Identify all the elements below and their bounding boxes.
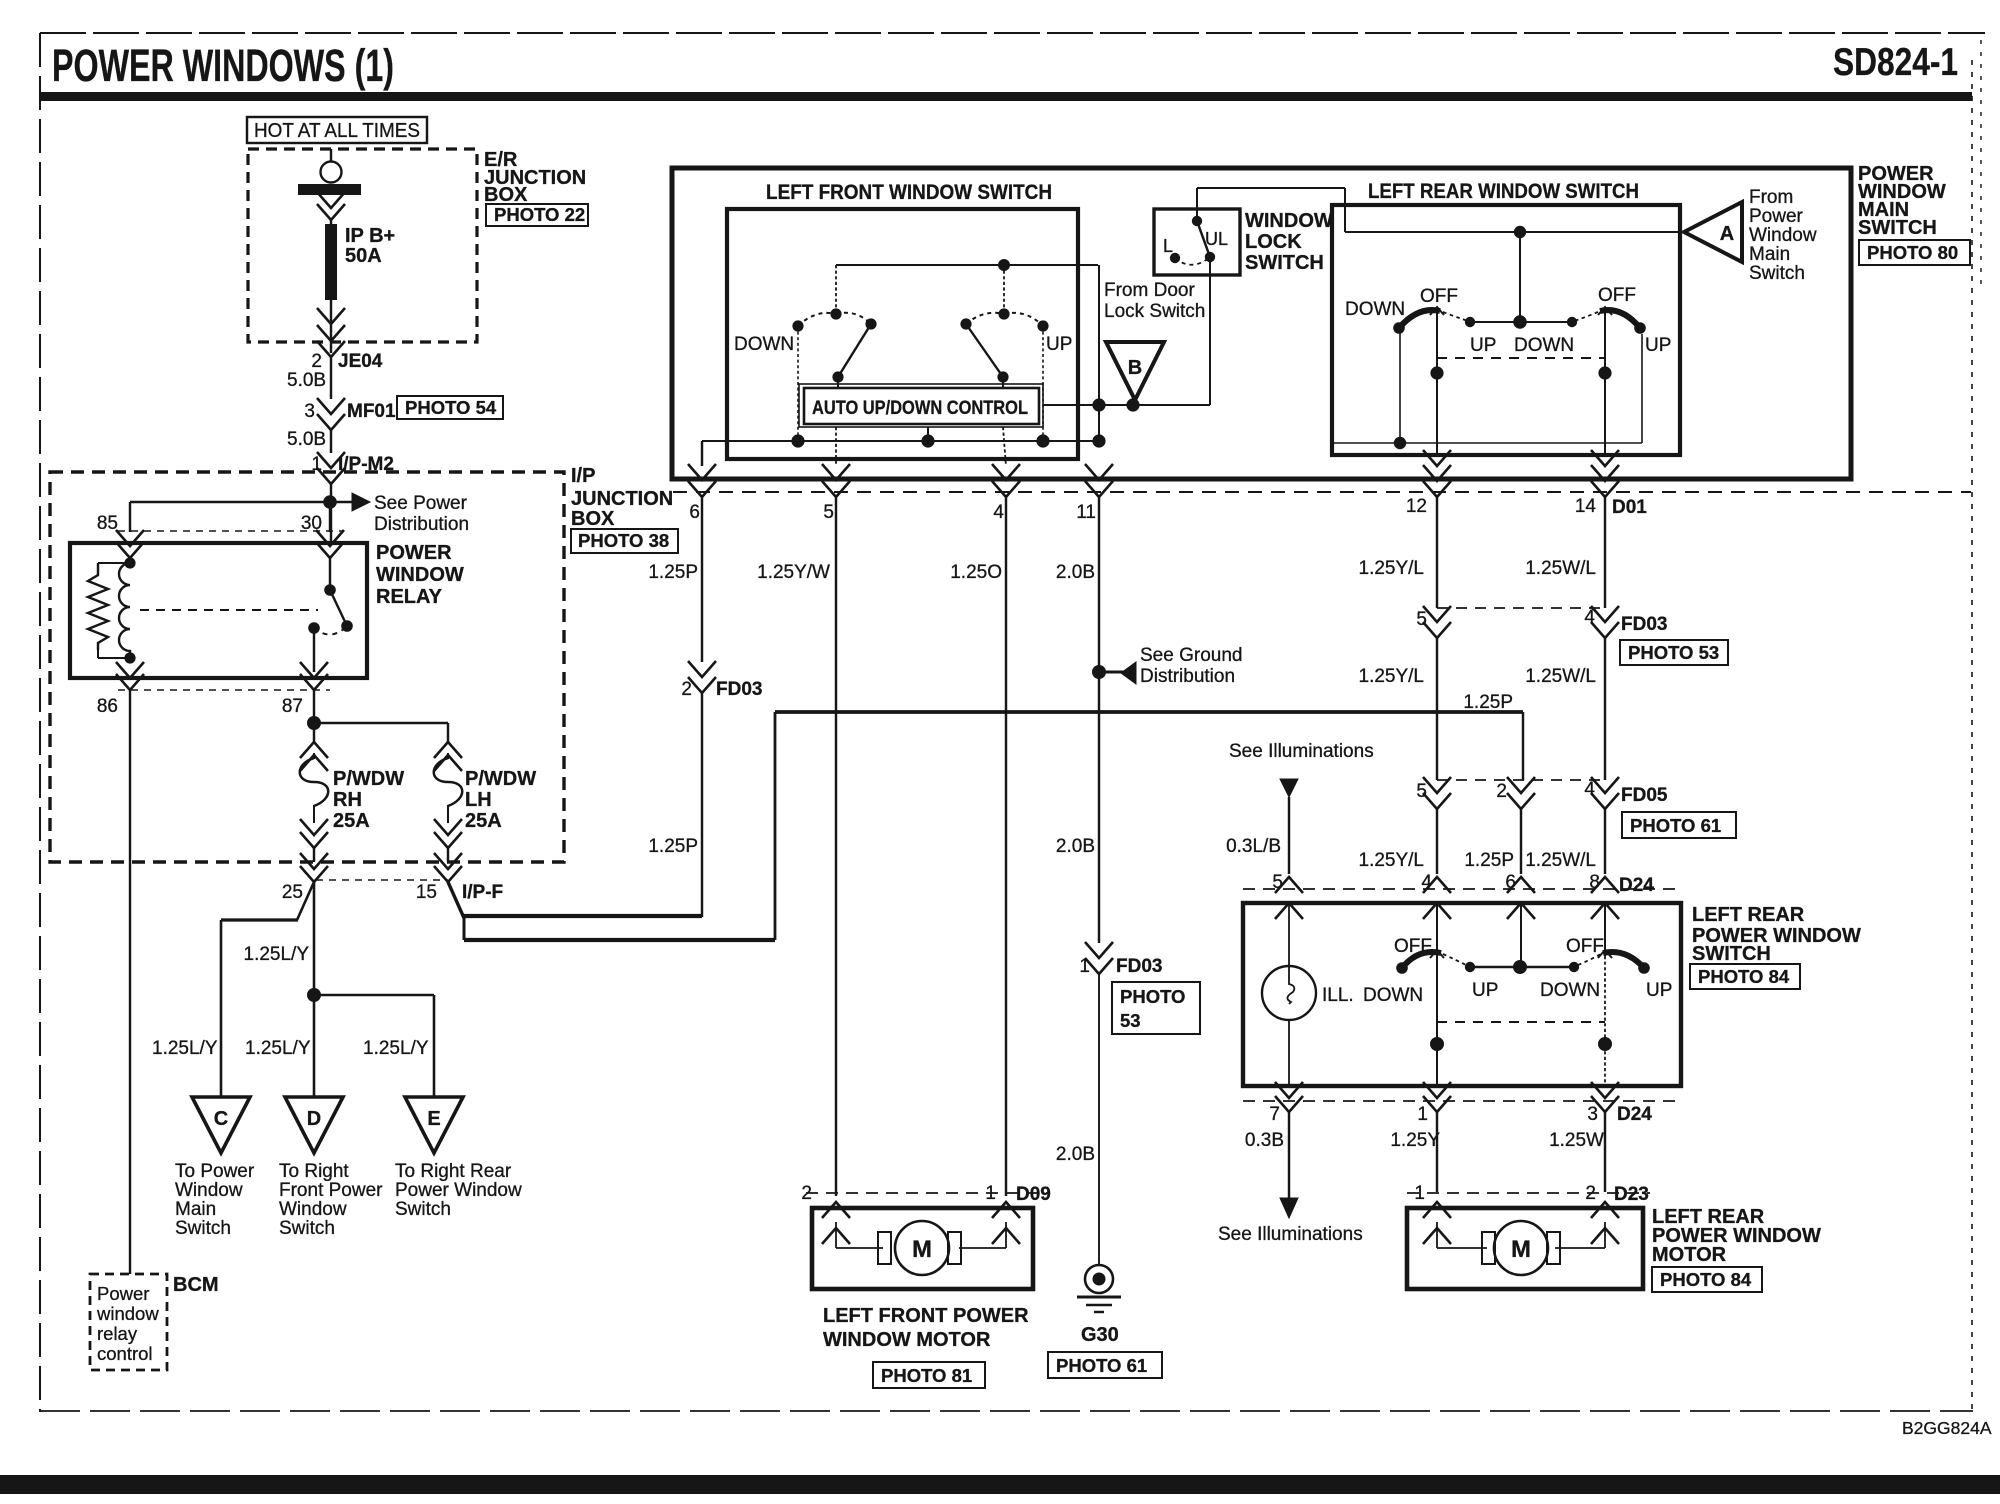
FD05 connector bbox=[1437, 779, 1605, 781]
bottom black bar bbox=[0, 1475, 2000, 1494]
wire fuse to JE04 bbox=[330, 300, 332, 353]
svg-text:UP: UP bbox=[1646, 980, 1672, 1001]
PHOTO 53 box (ground) bbox=[1112, 982, 1200, 1034]
svg-text:2: 2 bbox=[1585, 1183, 1596, 1204]
svg-text:JUNCTION: JUNCTION bbox=[571, 488, 673, 510]
svg-text:PHOTO: PHOTO bbox=[1120, 986, 1185, 1007]
battery feed stub bbox=[330, 149, 332, 162]
pin 11 vertical bbox=[1098, 265, 1100, 441]
svg-text:B: B bbox=[1128, 357, 1142, 379]
svg-text:IP B+: IP B+ bbox=[345, 225, 395, 247]
lock switch feed wire to rear box bbox=[1196, 188, 1198, 221]
wire to relay pin 85 bbox=[130, 501, 330, 503]
PHOTO 80 box bbox=[1859, 240, 1970, 265]
svg-text:Power Window: Power Window bbox=[395, 1180, 522, 1201]
D01 exit chevrons pin 14 bbox=[1591, 450, 1619, 466]
svg-text:I/P: I/P bbox=[571, 465, 595, 487]
wire column 14 (1.25W/L) bbox=[1604, 497, 1606, 608]
D01 exit chevrons pin 6 bbox=[688, 464, 716, 480]
relay connector dashed line bbox=[118, 530, 342, 532]
svg-text:PHOTO 61: PHOTO 61 bbox=[1630, 815, 1721, 836]
D01 exit chevrons pin 5 bbox=[822, 464, 850, 480]
wire column 6 (1.25P) bbox=[701, 497, 703, 662]
svg-text:PHOTO 80: PHOTO 80 bbox=[1867, 242, 1958, 263]
svg-text:OFF: OFF bbox=[1566, 936, 1604, 957]
PHOTO 81 box (front motor) bbox=[873, 1362, 985, 1388]
svg-text:DOWN: DOWN bbox=[1363, 985, 1423, 1006]
motor M circle bbox=[1494, 1221, 1548, 1275]
battery circle bbox=[321, 162, 342, 183]
svg-text:1.25P: 1.25P bbox=[648, 836, 698, 857]
svg-text:To Right: To Right bbox=[279, 1161, 349, 1182]
label HOT AT ALL TIMES bbox=[247, 117, 427, 143]
svg-text:Main: Main bbox=[1749, 244, 1790, 265]
pin5 wire inside box bbox=[835, 427, 837, 466]
D24 lower connector bbox=[1243, 1100, 1681, 1102]
svg-text:PHOTO 84: PHOTO 84 bbox=[1660, 1269, 1752, 1290]
I/P-F connector dashed bbox=[316, 879, 448, 881]
svg-text:1.25L/Y: 1.25L/Y bbox=[245, 1038, 311, 1059]
svg-text:M: M bbox=[912, 1236, 932, 1263]
D24 connector row (top of rear power switch) bbox=[1243, 888, 1681, 890]
wire column 4 (1.25O) bbox=[1005, 497, 1007, 1196]
svg-text:6: 6 bbox=[689, 502, 700, 523]
LEFT REAR POWER WINDOW SWITCH box bbox=[1243, 903, 1681, 1086]
D23 connector bbox=[1407, 1192, 1650, 1194]
svg-text:D01: D01 bbox=[1612, 497, 1647, 518]
svg-text:FD03: FD03 bbox=[1116, 956, 1162, 977]
BCM box bbox=[90, 1274, 167, 1370]
pivot verticals bbox=[1436, 903, 1438, 1086]
wires below switch bbox=[1288, 1112, 1290, 1198]
svg-text:MOTOR: MOTOR bbox=[1652, 1244, 1727, 1266]
svg-text:30: 30 bbox=[301, 513, 322, 534]
triangle connector E bbox=[405, 1097, 463, 1153]
svg-text:LEFT FRONT POWER: LEFT FRONT POWER bbox=[823, 1305, 1029, 1327]
rear pivot verticals bbox=[1436, 313, 1438, 455]
svg-text:WINDOW: WINDOW bbox=[1245, 210, 1333, 232]
svg-text:Switch: Switch bbox=[175, 1218, 231, 1239]
svg-text:2: 2 bbox=[311, 351, 322, 372]
svg-text:DOWN: DOWN bbox=[1345, 299, 1405, 320]
PHOTO 61 box (ground) bbox=[1048, 1352, 1162, 1378]
svg-text:5: 5 bbox=[823, 502, 834, 523]
svg-text:D23: D23 bbox=[1614, 1184, 1649, 1205]
svg-text:D09: D09 bbox=[1016, 1184, 1051, 1205]
svg-text:PHOTO 84: PHOTO 84 bbox=[1698, 966, 1790, 987]
connector 3 MF01 bbox=[317, 398, 345, 414]
D01 exit chevrons pin 12 bbox=[1423, 450, 1451, 466]
See Power Distribution arrow bbox=[330, 501, 352, 504]
svg-text:11: 11 bbox=[1076, 502, 1096, 523]
wire column 12 (1.25Y/L) bbox=[1436, 497, 1438, 608]
svg-text:1.25W/L: 1.25W/L bbox=[1525, 850, 1596, 871]
svg-text:From Door: From Door bbox=[1104, 280, 1195, 301]
wire 5.0B bbox=[330, 357, 332, 399]
svg-text:PHOTO 38: PHOTO 38 bbox=[578, 530, 669, 551]
resistor leads bbox=[98, 562, 130, 564]
svg-text:JE04: JE04 bbox=[338, 351, 383, 372]
svg-text:See Illuminations: See Illuminations bbox=[1218, 1224, 1363, 1245]
connector chevrons at E/R box exit bbox=[317, 308, 345, 324]
svg-text:LEFT FRONT WINDOW SWITCH: LEFT FRONT WINDOW SWITCH bbox=[766, 181, 1052, 204]
wires exiting I/P box bbox=[313, 848, 315, 862]
svg-text:5: 5 bbox=[1416, 781, 1427, 802]
svg-text:See Illuminations: See Illuminations bbox=[1229, 741, 1374, 762]
svg-text:Power: Power bbox=[1749, 206, 1804, 227]
svg-text:1: 1 bbox=[1417, 1104, 1428, 1125]
svg-text:ILL.: ILL. bbox=[1322, 985, 1354, 1006]
1.25P distribution: pin15 to FD03-2 and FD05-2 bbox=[448, 882, 464, 918]
svg-text:1.25Y/L: 1.25Y/L bbox=[1359, 666, 1425, 687]
relay lower connector dashed bbox=[118, 689, 330, 691]
door lock node wire bbox=[1092, 398, 1105, 411]
svg-text:LEFT REAR: LEFT REAR bbox=[1692, 904, 1805, 926]
svg-text:25A: 25A bbox=[465, 810, 502, 832]
power window main switch outer box bbox=[672, 168, 1851, 479]
svg-text:1: 1 bbox=[1079, 956, 1090, 977]
PHOTO 84 box (motor) bbox=[1652, 1267, 1762, 1292]
relay switch contacts bbox=[329, 558, 331, 590]
svg-text:1.25L/Y: 1.25L/Y bbox=[244, 944, 310, 965]
svg-text:PHOTO 61: PHOTO 61 bbox=[1056, 1355, 1147, 1376]
D09 connector bbox=[806, 1192, 1050, 1194]
svg-text:5.0B: 5.0B bbox=[287, 429, 326, 450]
wire pin25 down bbox=[313, 882, 316, 995]
svg-text:A: A bbox=[1720, 223, 1734, 245]
WINDOW LOCK SWITCH box bbox=[1154, 209, 1240, 275]
svg-text:B2GG824A: B2GG824A bbox=[1902, 1418, 1992, 1438]
front switch common bottom wire bbox=[702, 440, 1099, 442]
svg-text:UP: UP bbox=[1645, 335, 1671, 356]
svg-text:25A: 25A bbox=[333, 810, 370, 832]
relay coil bbox=[119, 563, 130, 658]
svg-text:LH: LH bbox=[465, 789, 492, 811]
svg-text:UP: UP bbox=[1470, 335, 1496, 356]
svg-text:1.25L/Y: 1.25L/Y bbox=[152, 1038, 218, 1059]
svg-text:1.25P: 1.25P bbox=[1463, 692, 1513, 713]
svg-text:Switch: Switch bbox=[395, 1199, 451, 1220]
svg-text:LEFT REAR WINDOW SWITCH: LEFT REAR WINDOW SWITCH bbox=[1368, 180, 1639, 203]
wire pin 86 down to BCM bbox=[129, 690, 131, 1274]
svg-text:Window: Window bbox=[175, 1180, 243, 1201]
svg-text:1: 1 bbox=[1414, 1183, 1425, 1204]
svg-text:I/P-F: I/P-F bbox=[462, 882, 503, 903]
PHOTO 61 box bbox=[1622, 812, 1736, 838]
svg-text:2: 2 bbox=[1496, 781, 1507, 802]
D01 connector dashed line bbox=[673, 491, 1971, 493]
ground distribution node bbox=[1092, 665, 1106, 679]
rear power switch left arc bbox=[1396, 962, 1408, 974]
front left switch (DOWN) bbox=[830, 308, 841, 319]
svg-text:0.3B: 0.3B bbox=[1245, 1130, 1284, 1151]
lock switch contacts bbox=[1192, 216, 1202, 226]
relay coil resistor zigzag bbox=[88, 563, 108, 650]
svg-text:1.25O: 1.25O bbox=[950, 562, 1002, 583]
svg-text:3: 3 bbox=[304, 401, 315, 422]
svg-text:1.25W/L: 1.25W/L bbox=[1525, 666, 1596, 687]
svg-text:FD03: FD03 bbox=[1621, 614, 1667, 635]
svg-text:1.25P: 1.25P bbox=[1464, 850, 1514, 871]
svg-text:BCM: BCM bbox=[173, 1274, 219, 1296]
wire to relay pin 30 bbox=[329, 502, 331, 532]
AUTO box right wire to door lock node bbox=[1043, 404, 1210, 406]
front right contact drop bbox=[1042, 326, 1044, 441]
svg-text:BOX: BOX bbox=[571, 508, 615, 530]
svg-text:AUTO UP/DOWN CONTROL: AUTO UP/DOWN CONTROL bbox=[812, 397, 1028, 419]
svg-text:0.3L/B: 0.3L/B bbox=[1226, 836, 1281, 857]
title underline bar bbox=[40, 92, 1972, 101]
rear switch bottom wire bbox=[1394, 437, 1406, 449]
PHOTO 54 box bbox=[397, 396, 503, 419]
dashed link bbox=[1437, 1021, 1605, 1023]
node: power distribution junction bbox=[323, 495, 337, 509]
wire column 5 (1.25Y/W) bbox=[835, 497, 837, 1196]
svg-text:2.0B: 2.0B bbox=[1056, 836, 1095, 857]
svg-text:1.25W: 1.25W bbox=[1549, 1130, 1604, 1151]
wire 85 into coil bbox=[129, 558, 131, 563]
svg-text:53: 53 bbox=[1120, 1010, 1141, 1031]
svg-text:3: 3 bbox=[1587, 1104, 1598, 1125]
wires FD05 to D24 bbox=[1436, 809, 1438, 874]
wire pin25 jog to C branch bbox=[297, 882, 314, 920]
svg-text:FD03: FD03 bbox=[716, 679, 762, 700]
svg-text:SWITCH: SWITCH bbox=[1245, 252, 1324, 274]
pin 87 chevrons bbox=[300, 662, 328, 678]
svg-text:To Right Rear: To Right Rear bbox=[395, 1161, 512, 1182]
svg-text:FD05: FD05 bbox=[1621, 785, 1668, 806]
svg-text:M: M bbox=[1511, 1236, 1531, 1263]
svg-text:PHOTO 22: PHOTO 22 bbox=[494, 204, 585, 225]
ground G30 symbol bbox=[1085, 1265, 1113, 1293]
relay box POWER WINDOW RELAY bbox=[70, 543, 367, 678]
rear switch contact row bbox=[1513, 315, 1527, 329]
svg-text:G30: G30 bbox=[1081, 1324, 1119, 1346]
PHOTO 53 box bbox=[1620, 640, 1728, 665]
svg-text:50A: 50A bbox=[345, 245, 382, 267]
svg-text:1.25W/L: 1.25W/L bbox=[1525, 558, 1596, 579]
front motor M circle bbox=[895, 1221, 949, 1275]
svg-text:Distribution: Distribution bbox=[374, 514, 469, 535]
svg-text:WINDOW MOTOR: WINDOW MOTOR bbox=[823, 1329, 991, 1351]
PHOTO 38 box bbox=[571, 529, 678, 553]
svg-text:1: 1 bbox=[985, 1183, 996, 1204]
svg-text:12: 12 bbox=[1406, 496, 1427, 517]
rear power switch right arc bbox=[1603, 952, 1644, 968]
svg-text:5: 5 bbox=[1416, 609, 1427, 630]
svg-text:RH: RH bbox=[333, 789, 362, 811]
svg-text:5.0B: 5.0B bbox=[287, 370, 326, 391]
rear switch feed wire bbox=[1345, 231, 1684, 233]
svg-text:4: 4 bbox=[1584, 779, 1595, 800]
svg-text:DOWN: DOWN bbox=[1514, 335, 1574, 356]
relay armature dashed link bbox=[140, 609, 318, 611]
svg-text:D24: D24 bbox=[1619, 875, 1654, 896]
wire to RH fuse bbox=[313, 723, 315, 742]
svg-text:4: 4 bbox=[993, 502, 1004, 523]
pin 15 chevrons bbox=[434, 853, 462, 869]
connector 1 I/P-M2 bbox=[317, 452, 345, 468]
front switch feed wire bbox=[836, 264, 1098, 266]
svg-text:2.0B: 2.0B bbox=[1056, 1144, 1095, 1165]
triangle connector B bbox=[1106, 342, 1164, 400]
PHOTO 22 box bbox=[486, 204, 588, 226]
fuse P/WDW RH 25A bbox=[300, 742, 328, 758]
svg-text:OFF: OFF bbox=[1394, 936, 1432, 957]
D01 exit chevrons pin 4 bbox=[992, 464, 1020, 480]
svg-text:POWER: POWER bbox=[376, 542, 452, 564]
left rear window switch box bbox=[1332, 205, 1680, 455]
svg-text:WINDOW: WINDOW bbox=[376, 564, 464, 586]
PHOTO 84 box bbox=[1690, 964, 1800, 989]
lock switch UL wire down bbox=[1209, 257, 1211, 405]
rear left switch arc bbox=[1393, 322, 1405, 334]
svg-text:MF01: MF01 bbox=[347, 401, 396, 422]
svg-text:87: 87 bbox=[282, 696, 303, 717]
bus bar bbox=[298, 184, 361, 195]
ILL bulb bbox=[1288, 903, 1290, 966]
pin 86 chevrons bbox=[116, 662, 144, 678]
FD03 connector (right) bbox=[1437, 607, 1605, 609]
fuse P/WDW LH 25A bbox=[434, 742, 462, 758]
LEFT REAR POWER WINDOW MOTOR box bbox=[1407, 1208, 1643, 1289]
pin 85 chevrons bbox=[116, 530, 144, 546]
svg-text:OFF: OFF bbox=[1420, 286, 1458, 307]
connector 2 FD03 bbox=[688, 661, 716, 677]
connector 1 FD03 (ground wire) bbox=[1085, 942, 1113, 958]
svg-text:window: window bbox=[96, 1303, 159, 1324]
svg-text:1.25P: 1.25P bbox=[648, 562, 698, 583]
wire into I/P box bbox=[330, 484, 332, 543]
svg-text:DOWN: DOWN bbox=[1540, 980, 1600, 1001]
wire 5.0B second bbox=[330, 430, 332, 453]
svg-text:D24: D24 bbox=[1617, 1104, 1652, 1125]
AUTO box to common stub bbox=[927, 427, 929, 441]
pin 30 chevrons bbox=[316, 530, 344, 546]
triangle connector C bbox=[192, 1097, 250, 1153]
svg-text:Window: Window bbox=[1749, 225, 1817, 246]
svg-text:control: control bbox=[97, 1343, 153, 1364]
svg-text:25: 25 bbox=[282, 882, 303, 903]
svg-text:P/WDW: P/WDW bbox=[465, 768, 536, 790]
svg-text:P/WDW: P/WDW bbox=[333, 768, 404, 790]
svg-text:DOWN: DOWN bbox=[734, 334, 794, 355]
node D/E branch bbox=[307, 988, 321, 1002]
pin 25 chevrons bbox=[300, 853, 328, 869]
svg-text:Front Power: Front Power bbox=[279, 1180, 383, 1201]
svg-text:2: 2 bbox=[801, 1183, 812, 1204]
svg-text:85: 85 bbox=[97, 513, 118, 534]
svg-text:Main: Main bbox=[175, 1199, 216, 1220]
fuse IP B+ 50A body bbox=[330, 218, 332, 226]
svg-text:2: 2 bbox=[681, 679, 692, 700]
svg-text:1.25Y/L: 1.25Y/L bbox=[1359, 850, 1425, 871]
svg-text:86: 86 bbox=[97, 696, 118, 717]
svg-text:HOT AT ALL TIMES: HOT AT ALL TIMES bbox=[254, 120, 420, 142]
svg-text:To Power: To Power bbox=[175, 1161, 255, 1182]
LEFT FRONT POWER WINDOW MOTOR box bbox=[812, 1208, 1033, 1289]
svg-text:SWITCH: SWITCH bbox=[1858, 217, 1937, 239]
triangle connector A bbox=[1684, 202, 1742, 262]
svg-text:2.0B: 2.0B bbox=[1056, 562, 1095, 583]
svg-text:BOX: BOX bbox=[484, 184, 528, 206]
svg-text:Window: Window bbox=[279, 1199, 347, 1220]
svg-text:Distribution: Distribution bbox=[1140, 666, 1235, 687]
svg-text:SWITCH: SWITCH bbox=[1692, 943, 1771, 965]
svg-text:LOCK: LOCK bbox=[1245, 231, 1302, 253]
page border bbox=[40, 32, 1985, 34]
svg-text:Switch: Switch bbox=[279, 1218, 335, 1239]
svg-text:Lock Switch: Lock Switch bbox=[1104, 301, 1205, 322]
wire 87 to fuse junction bbox=[313, 690, 315, 723]
svg-text:relay: relay bbox=[97, 1323, 138, 1344]
wire to pin 87 bbox=[313, 628, 315, 672]
rear switch dashed link bbox=[1437, 357, 1605, 359]
rear right switch arc bbox=[1634, 322, 1646, 334]
svg-text:1.25Y: 1.25Y bbox=[1390, 1130, 1440, 1151]
front right switch (UP) bbox=[998, 308, 1009, 319]
svg-text:C: C bbox=[214, 1108, 228, 1130]
chevrons below bus bar bbox=[317, 192, 345, 208]
svg-text:1.25Y/W: 1.25Y/W bbox=[757, 562, 830, 583]
E/R junction box (dashed) bbox=[248, 149, 477, 342]
svg-text:PHOTO 53: PHOTO 53 bbox=[1628, 642, 1719, 663]
svg-text:UP: UP bbox=[1046, 334, 1072, 355]
svg-text:See Ground: See Ground bbox=[1140, 645, 1242, 666]
svg-text:OFF: OFF bbox=[1598, 285, 1636, 306]
svg-text:14: 14 bbox=[1575, 496, 1597, 517]
svg-text:From: From bbox=[1749, 187, 1793, 208]
rear power switch contact row bbox=[1470, 966, 1574, 968]
front left contact drop bbox=[797, 326, 799, 441]
See Illuminations (bottom) bbox=[1280, 1198, 1298, 1218]
exits from switch box bbox=[1275, 1082, 1303, 1098]
pin4 wire inside box bbox=[1003, 427, 1006, 466]
svg-text:15: 15 bbox=[416, 882, 437, 903]
svg-text:1.25Y/L: 1.25Y/L bbox=[1359, 558, 1425, 579]
svg-text:See Power: See Power bbox=[374, 493, 468, 514]
svg-text:RELAY: RELAY bbox=[376, 586, 443, 608]
svg-text:1.25L/Y: 1.25L/Y bbox=[363, 1038, 429, 1059]
svg-text:SD824-1: SD824-1 bbox=[1833, 41, 1958, 84]
svg-text:7: 7 bbox=[1269, 1104, 1280, 1125]
svg-text:UL: UL bbox=[1205, 229, 1228, 249]
left front window switch box bbox=[727, 209, 1078, 459]
svg-text:POWER WINDOWS (1): POWER WINDOWS (1) bbox=[52, 40, 394, 91]
svg-text:Switch: Switch bbox=[1749, 263, 1805, 284]
branch to LH fuse bbox=[314, 722, 448, 724]
I/P junction box (dashed) bbox=[50, 472, 564, 862]
svg-text:E: E bbox=[427, 1108, 440, 1130]
connector 2 JE04 bbox=[317, 341, 345, 357]
node fuse feed junction bbox=[307, 716, 321, 730]
svg-text:D: D bbox=[307, 1108, 321, 1130]
wire column 11 (2.0B) bbox=[1098, 497, 1100, 943]
AUTO UP/DOWN CONTROL box bbox=[837, 377, 839, 389]
svg-text:PHOTO 54: PHOTO 54 bbox=[405, 397, 497, 418]
svg-text:4: 4 bbox=[1584, 607, 1595, 628]
svg-text:L: L bbox=[1163, 236, 1173, 256]
D01 exit chevrons pin 11 bbox=[1085, 464, 1113, 480]
svg-text:PHOTO 81: PHOTO 81 bbox=[881, 1365, 972, 1386]
triangle connector D bbox=[285, 1097, 343, 1153]
svg-text:Power: Power bbox=[97, 1283, 149, 1304]
svg-text:UP: UP bbox=[1472, 980, 1498, 1001]
